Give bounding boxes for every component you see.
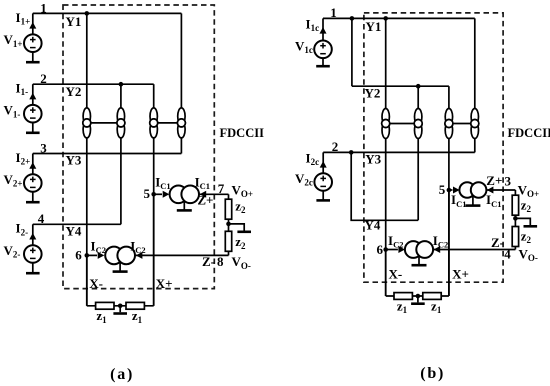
node dot wire1 element1 (b) bbox=[383, 16, 388, 21]
arrow IC1 into mirror left (a) bbox=[154, 193, 162, 195]
wire z2 bottom to Z- (b) bbox=[514, 247, 516, 250]
voltage source V2+ bbox=[32, 154, 34, 175]
element link 3-4 (b) bbox=[453, 123, 472, 125]
element pair 4 (a) bbox=[178, 108, 185, 125]
element link 1-2 (a) bbox=[91, 122, 118, 124]
element pair 1 (b) bbox=[382, 109, 389, 126]
wire element4 bottom to Y3 (b) bbox=[474, 139, 476, 153]
voltage source V1- bbox=[32, 84, 34, 105]
element pair 3 (a) bbox=[150, 108, 157, 125]
node 6 dot (a) bbox=[85, 253, 90, 258]
resistor z2 lower (b) bbox=[512, 227, 518, 247]
svg-text:Z+: Z+ bbox=[197, 193, 213, 208]
wire node6 down to X- rail bbox=[86, 255, 88, 305]
resistor z2 lower (a) bbox=[225, 231, 231, 251]
node dot z2 midpoint (b) bbox=[513, 216, 518, 221]
resistor z2 upper (b) bbox=[512, 195, 518, 215]
svg-text:7: 7 bbox=[218, 181, 225, 196]
node dot z1 midpoint (a) bbox=[118, 304, 123, 309]
wire drop Y3 to Y4 (b) bbox=[351, 152, 418, 220]
node dot Y2 element2 (b) bbox=[416, 84, 421, 89]
wire element4 bottom to Y3 bbox=[180, 138, 182, 154]
resistor z1 left (b) bbox=[394, 293, 412, 300]
wire element2 column top (b) bbox=[417, 86, 419, 109]
svg-text:Z-: Z- bbox=[491, 235, 504, 250]
wire Y2 (a) bbox=[33, 83, 154, 85]
svg-text:4: 4 bbox=[504, 246, 511, 261]
svg-text:X-: X- bbox=[89, 276, 103, 291]
wire Y4 (a) bbox=[33, 223, 121, 225]
resistor z1 left (a) bbox=[96, 302, 114, 309]
node dot Y1-junction (a) bbox=[85, 11, 90, 16]
voltage source V2c bbox=[322, 152, 324, 173]
wire Z+ corner down (a) bbox=[228, 194, 230, 199]
wire Y1 right drop to element4 (b) bbox=[474, 18, 476, 108]
wire element1 column top bbox=[86, 13, 88, 108]
svg-text:(b): (b) bbox=[420, 365, 445, 382]
element pair 3 (b) bbox=[445, 109, 452, 126]
svg-text:FDCCII: FDCCII bbox=[508, 126, 550, 140]
element pair 2 (a) bbox=[117, 108, 124, 125]
arrow IC2 from Z- into mirror right (b) bbox=[433, 249, 515, 251]
wire Y1 (a) bbox=[33, 12, 182, 14]
wire Y2 right drop to element 3 bbox=[153, 84, 155, 108]
arrow IC1 from Z+ into mirror right (b) bbox=[486, 189, 515, 191]
node 5 dot (a) bbox=[151, 192, 156, 197]
element pair 4 (b) bbox=[471, 109, 478, 126]
wire element3 column down to X+ rail (b) bbox=[448, 139, 450, 297]
node dot Y3 drop (b) bbox=[349, 150, 354, 155]
wire Y2 (b) bbox=[352, 85, 449, 87]
element small circles repaint (a) bbox=[83, 119, 91, 127]
wire node6 down to X- rail (b) bbox=[385, 250, 387, 297]
element pair 1 (a) bbox=[83, 108, 90, 125]
resistor z2 upper (a) bbox=[225, 199, 231, 219]
wire element2 bottom to Y4 (b) bbox=[417, 139, 419, 221]
wire Z+ corner down (b) bbox=[514, 190, 516, 196]
svg-text:5: 5 bbox=[439, 182, 446, 197]
svg-text:3: 3 bbox=[504, 173, 511, 188]
arrow IC2 into mirror left (a) bbox=[87, 254, 97, 256]
wire Y2 right drop to element3 (b) bbox=[448, 86, 450, 109]
wire element1 column down to X- rail bbox=[86, 138, 88, 306]
element link 3-4 (a) bbox=[157, 122, 177, 124]
ground tap z2 midpoint (b) bbox=[515, 218, 530, 225]
wire node5 down to X+ rail bbox=[153, 194, 155, 305]
element link 1-2 (b) bbox=[389, 123, 414, 125]
svg-text:X+: X+ bbox=[452, 267, 469, 282]
ground z1 midpoint (b) bbox=[417, 296, 419, 302]
svg-text:Y2: Y2 bbox=[365, 85, 381, 100]
node dot wire1 drop (b) bbox=[350, 16, 355, 21]
resistor z1 right (a) bbox=[126, 302, 144, 309]
current mirror IC1 (a) bbox=[183, 202, 185, 210]
ground z1 midpoint (a) bbox=[119, 306, 121, 312]
wire element2 bottom to Y4 bbox=[120, 138, 122, 224]
wire z2 mid stub (b) bbox=[514, 215, 516, 227]
svg-text:(a): (a) bbox=[110, 366, 134, 383]
wire Y1 right drop to element 4 bbox=[180, 13, 182, 108]
arrow IC2 into mirror left (b) bbox=[386, 249, 398, 251]
current mirror IC2 (a) bbox=[119, 263, 121, 271]
wire X rail (b) bbox=[386, 295, 449, 297]
svg-text:Y2: Y2 bbox=[66, 84, 82, 99]
wire Y3 (b) bbox=[323, 151, 475, 153]
current mirror IC1 (b) bbox=[472, 197, 474, 205]
svg-text:8: 8 bbox=[217, 254, 224, 269]
node 5 dot (b) bbox=[447, 188, 452, 193]
svg-text:X+: X+ bbox=[156, 276, 173, 291]
wire z2 mid stub (a) bbox=[228, 219, 230, 231]
ground tap z2 midpoint (a) bbox=[229, 224, 245, 231]
voltage source V2- bbox=[32, 224, 34, 245]
wire element1 column (b) bbox=[385, 18, 387, 108]
arrow IC1 into mirror left (b) bbox=[449, 189, 453, 191]
arrow IC2 from Z- into mirror right (a) bbox=[136, 254, 229, 256]
wire drop to Y2 (b) bbox=[351, 18, 353, 86]
node dot Y2-junction (a) bbox=[119, 82, 124, 87]
svg-text:FDCCII: FDCCII bbox=[220, 126, 265, 140]
wire z2 bottom to Z- (a) bbox=[228, 251, 230, 255]
voltage source V1c bbox=[322, 18, 324, 40]
wire element2 column top bbox=[120, 84, 122, 108]
node 6 dot (b) bbox=[383, 247, 388, 252]
svg-text:Y3: Y3 bbox=[66, 153, 82, 168]
svg-text:Y1: Y1 bbox=[66, 14, 82, 29]
dashed box FDCCII (a) bbox=[63, 5, 214, 289]
node dot z2 midpoint (a) bbox=[226, 222, 231, 227]
svg-text:Y4: Y4 bbox=[66, 223, 82, 238]
voltage source V1+ bbox=[32, 13, 34, 34]
svg-text:6: 6 bbox=[75, 248, 82, 263]
node dot z1 midpoint (b) bbox=[416, 294, 421, 299]
svg-text:Y4: Y4 bbox=[365, 218, 381, 233]
dashed box FDCCII (b) bbox=[364, 13, 503, 282]
wire element1 column down to X- rail (b) bbox=[385, 139, 387, 297]
element pair 2 (b) bbox=[415, 109, 422, 126]
element small circles repaint (b) bbox=[382, 120, 390, 128]
current mirror IC2 (b) bbox=[418, 257, 420, 265]
wire X rail (a) bbox=[87, 305, 154, 307]
svg-text:Y1: Y1 bbox=[366, 19, 382, 34]
arrow IC1 from Z+ into mirror right (a) bbox=[199, 193, 229, 195]
resistor z1 right (b) bbox=[423, 293, 441, 300]
wire Y1 (b) bbox=[323, 17, 475, 19]
wire Y3 (a) bbox=[33, 153, 182, 155]
svg-text:Y3: Y3 bbox=[365, 151, 381, 166]
svg-text:X-: X- bbox=[389, 267, 403, 282]
svg-text:5: 5 bbox=[143, 186, 150, 201]
wire node5 down to X+ rail (b) bbox=[448, 190, 450, 296]
svg-text:Z-: Z- bbox=[202, 254, 215, 269]
svg-text:Z+: Z+ bbox=[486, 173, 502, 188]
svg-text:6: 6 bbox=[376, 242, 383, 257]
wire element3 column down to X+ rail bbox=[153, 138, 155, 306]
